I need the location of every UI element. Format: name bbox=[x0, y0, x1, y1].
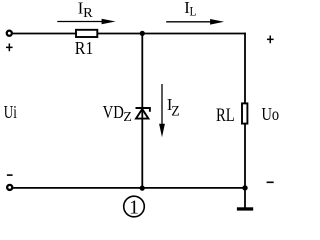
svg-text:Z: Z bbox=[123, 109, 131, 124]
svg-text:L: L bbox=[190, 3, 197, 18]
svg-text:Z: Z bbox=[171, 103, 180, 119]
svg-text:Ui: Ui bbox=[4, 102, 17, 122]
svg-text:RL: RL bbox=[216, 106, 235, 126]
svg-text:R1: R1 bbox=[75, 38, 94, 58]
svg-text:R: R bbox=[83, 6, 93, 21]
svg-text:1: 1 bbox=[129, 197, 139, 219]
svg-text:Uo: Uo bbox=[262, 104, 280, 124]
svg-text:VD: VD bbox=[103, 102, 124, 122]
